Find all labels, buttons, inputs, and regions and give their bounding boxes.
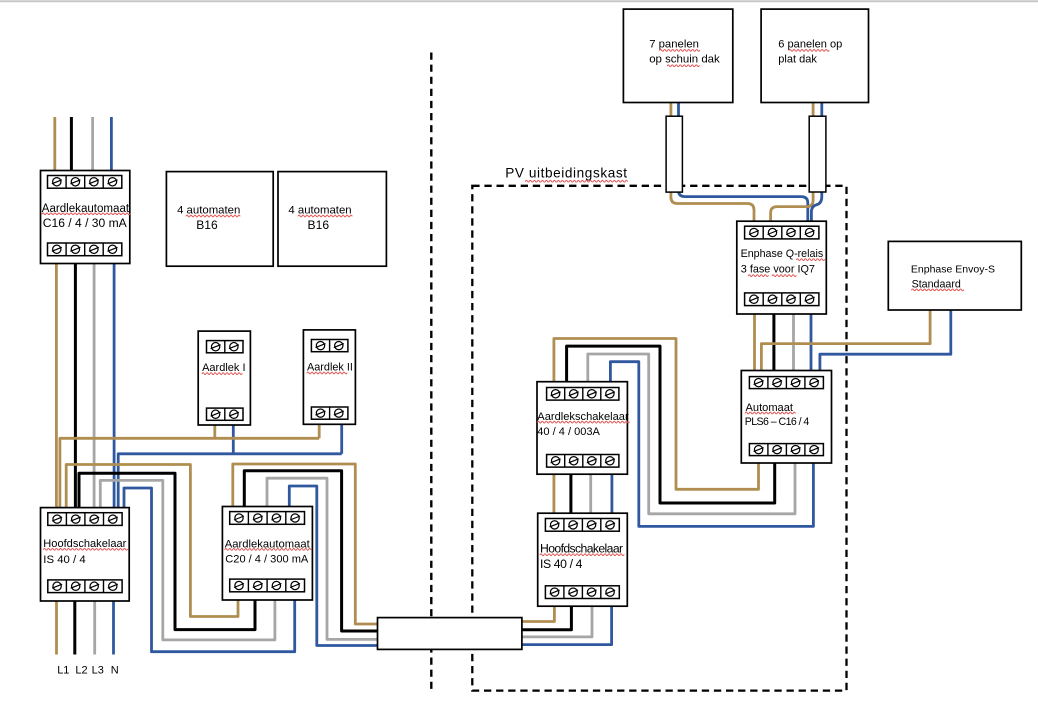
wire L1 brown feeder middle bbox=[55, 258, 58, 512]
spellcheck Aardlekautomaat bbox=[42, 213, 130, 215]
svg-text:PV uitbeidingskast: PV uitbeidingskast bbox=[505, 165, 627, 180]
wire N blue feeder bottom bbox=[112, 596, 115, 655]
terminals Hoofdschakelaar PV bottom bbox=[545, 586, 619, 599]
spellcheck Standaard bbox=[912, 289, 964, 291]
svg-text:IS 40 / 4: IS 40 / 4 bbox=[540, 557, 583, 571]
wire brown Hoofdschakelaar naar C20 onder bbox=[66, 465, 238, 617]
wire L1 brown feeder top bbox=[53, 117, 56, 175]
wire brown string schuin dak naar Q-relais bbox=[671, 101, 754, 232]
wire blue Q-relais naar Automaat bbox=[810, 312, 813, 373]
Aardlek I box bbox=[198, 331, 250, 425]
wire L3 grey feeder bottom bbox=[93, 596, 96, 655]
wire grey kabelgoot naar PV Hoofdschakelaar bbox=[458, 604, 592, 637]
spellcheck automaten 1 bbox=[186, 215, 240, 217]
svg-text:B16: B16 bbox=[196, 218, 218, 232]
spellcheck panelen 1 bbox=[660, 50, 700, 52]
wire L3 grey feeder top bbox=[91, 117, 94, 175]
svg-text:C16 / 4 / 30 mA: C16 / 4 / 30 mA bbox=[43, 216, 128, 230]
wire L2 black feeder middle bbox=[74, 258, 77, 512]
wire brown C20 boven naar kabelgoot bbox=[233, 464, 462, 624]
wire blue Aardlekschakelaar naar Automaat bbox=[610, 362, 813, 527]
terminals C16 top bbox=[48, 176, 122, 189]
terminals Hoofdschakelaar links top bbox=[48, 513, 122, 526]
6 panelen op plat dak box bbox=[761, 9, 868, 102]
svg-text:Enphase Q-relais: Enphase Q-relais bbox=[741, 248, 824, 260]
wire grey C20 boven naar kabelgoot bbox=[267, 478, 462, 639]
terminals Hoofdschakelaar links bottom bbox=[48, 580, 122, 593]
wire brown Q-relais naar Automaat bbox=[753, 312, 756, 373]
wire blue string plat dak naar Q-relais bbox=[811, 101, 821, 232]
wire black Aardlekschakelaar naar PV Hoofdschakelaar bbox=[569, 472, 572, 516]
wire black kabelgoot naar PV Hoofdschakelaar bbox=[458, 604, 571, 630]
groep 4 automaten B16 box 1 bbox=[166, 172, 273, 267]
wire L1 brown feeder bottom bbox=[55, 596, 58, 655]
wire blue Envoy-S naar Automaat bbox=[820, 308, 951, 373]
spellcheck Aardlekschakelaar bbox=[537, 421, 629, 423]
wire L3 grey feeder middle bbox=[93, 258, 96, 512]
wire brown Aardlekschakelaar naar Automaat bbox=[554, 339, 759, 490]
wire Aardlek I brown drop bbox=[213, 420, 216, 438]
svg-text:Aardlek II: Aardlek II bbox=[307, 362, 353, 374]
spellcheck automaten 2 bbox=[298, 215, 352, 217]
wire blue Aardlekschakelaar naar PV Hoofdschakelaar bbox=[611, 472, 614, 516]
terminals Aardlek II bottom bbox=[311, 407, 348, 419]
aardlekautomaat C16 box bbox=[41, 171, 130, 264]
svg-text:op schuin dak: op schuin dak bbox=[649, 54, 720, 66]
wire black Aardlekschakelaar naar Automaat bbox=[567, 346, 775, 503]
svg-text:7 panelen: 7 panelen bbox=[649, 38, 699, 50]
7 panelen op schuin dak box bbox=[623, 9, 732, 102]
wire blue C20 boven naar kabelgoot bbox=[289, 486, 462, 646]
meterkast/PV scheidings dashed line bbox=[430, 53, 432, 692]
Automaat PLS6 box bbox=[741, 371, 831, 464]
spellcheck Automaat bbox=[745, 412, 795, 414]
Enphase Envoy-S box bbox=[888, 241, 1021, 310]
wire L2 black feeder bottom bbox=[73, 596, 76, 655]
wire grey Q-relais naar Automaat bbox=[792, 312, 795, 373]
wire blue bus Aardlek naar Hoofdschakelaar bbox=[118, 454, 342, 512]
spellcheck C20 bbox=[225, 549, 311, 551]
spellcheck panelen 2 bbox=[789, 50, 829, 52]
wire Aardlek I blue drop bbox=[232, 420, 235, 454]
wire brown Envoy-S naar Automaat bbox=[761, 308, 930, 373]
terminals Aardlekschakelaar bottom bbox=[547, 455, 619, 468]
wire black Hoofdschakelaar naar C20 onder bbox=[79, 473, 255, 629]
Aardlekschakelaar box bbox=[537, 382, 627, 475]
spellcheck fase bbox=[748, 275, 768, 277]
Enphase Q-relais box bbox=[737, 221, 827, 314]
terminals C20 top bbox=[230, 512, 305, 525]
Hoofdschakelaar IS40 box links bbox=[41, 508, 130, 601]
wire brown bus Aardlek naar Hoofdschakelaar bbox=[60, 438, 319, 512]
terminals Aardlek I bottom bbox=[207, 408, 244, 420]
svg-text:3 fase voor IQ7: 3 fase voor IQ7 bbox=[741, 263, 815, 275]
spellcheck voor bbox=[772, 275, 796, 277]
wire Aardlek II brown drop bbox=[318, 419, 321, 438]
doorvoer buis schuin dak bbox=[666, 116, 682, 192]
svg-text:Standaard: Standaard bbox=[912, 278, 961, 290]
terminals Hoofdschakelaar PV top bbox=[545, 519, 619, 532]
groep 4 automaten B16 box 2 bbox=[278, 172, 386, 267]
spellcheck Hoofdschakelaar links bbox=[44, 548, 128, 550]
svg-text:4 automaten: 4 automaten bbox=[288, 205, 351, 217]
Aardlek II box bbox=[303, 330, 355, 424]
wire black C20 boven naar kabelgoot bbox=[244, 471, 462, 631]
svg-text:plat dak: plat dak bbox=[778, 54, 817, 66]
terminals C16 bottom bbox=[48, 243, 122, 256]
wire Aardlek II blue drop bbox=[340, 419, 343, 454]
spellcheck relais bbox=[797, 259, 825, 261]
svg-text:C20 / 4 / 300 mA: C20 / 4 / 300 mA bbox=[225, 553, 309, 565]
terminals Aardlek II top bbox=[311, 340, 348, 352]
wire L2 black feeder top bbox=[70, 117, 73, 175]
spellcheck uitbeidingskast bbox=[525, 180, 627, 182]
terminals C20 bottom bbox=[230, 579, 305, 592]
aardlekautomaat C20 box bbox=[222, 507, 312, 601]
svg-text:6 panelen op: 6 panelen op bbox=[778, 38, 842, 50]
spellcheck schuin bbox=[667, 65, 699, 67]
wire brown kabelgoot naar PV Hoofdschakelaar bbox=[458, 604, 554, 622]
wire grey Aardlekschakelaar naar PV Hoofdschakelaar bbox=[589, 472, 592, 516]
wire blue string schuin dak naar Q-relais bbox=[679, 101, 808, 232]
wire blue Hoofdschakelaar naar C20 onder bbox=[124, 488, 295, 652]
svg-text:L1: L1 bbox=[57, 665, 69, 677]
svg-text:L2: L2 bbox=[75, 665, 87, 677]
terminals Q-relais bottom bbox=[745, 293, 819, 306]
terminals Automaat top bbox=[749, 377, 823, 389]
wire blue kabelgoot naar PV Hoofdschakelaar bbox=[458, 604, 612, 645]
svg-text:PLS6 – C16 / 4: PLS6 – C16 / 4 bbox=[745, 416, 810, 428]
spellcheck Hoofdschakelaar PV bbox=[540, 554, 624, 556]
spellcheck Aardlek I bbox=[202, 373, 242, 375]
kabelgoot doorvoer bbox=[378, 618, 522, 650]
wire black Q-relais naar Automaat bbox=[772, 312, 775, 373]
svg-text:N: N bbox=[111, 665, 119, 677]
svg-text:IS 40 / 4: IS 40 / 4 bbox=[43, 554, 85, 566]
terminals Automaat bottom bbox=[749, 444, 823, 456]
Hoofdschakelaar IS40 box PV bbox=[538, 513, 628, 606]
terminals Q-relais top bbox=[745, 226, 819, 239]
doorvoer buis plat dak bbox=[809, 116, 826, 192]
svg-text:B16: B16 bbox=[308, 218, 330, 232]
terminals Aardlekschakelaar top bbox=[547, 388, 619, 401]
wire N blue feeder top bbox=[110, 117, 113, 175]
terminals Aardlek I top bbox=[207, 341, 244, 353]
svg-text:L3: L3 bbox=[92, 665, 104, 677]
svg-text:40 / 4 / 003A: 40 / 4 / 003A bbox=[537, 426, 600, 438]
svg-text:Enphase Envoy-S: Enphase Envoy-S bbox=[911, 264, 995, 276]
spellcheck Aardlek II bbox=[307, 372, 347, 374]
wire N blue feeder middle bbox=[113, 258, 116, 512]
top window edge line bbox=[0, 0, 1038, 2]
PV uitbreidingskast dashed enclosure bbox=[472, 186, 846, 691]
wire grey Hoofdschakelaar naar C20 onder bbox=[100, 480, 275, 640]
wire brown string plat dak naar Q-relais bbox=[771, 101, 814, 232]
wire grey Aardlekschakelaar naar Automaat bbox=[588, 354, 795, 514]
wire brown Aardlekschakelaar naar PV Hoofdschakelaar bbox=[553, 472, 556, 516]
